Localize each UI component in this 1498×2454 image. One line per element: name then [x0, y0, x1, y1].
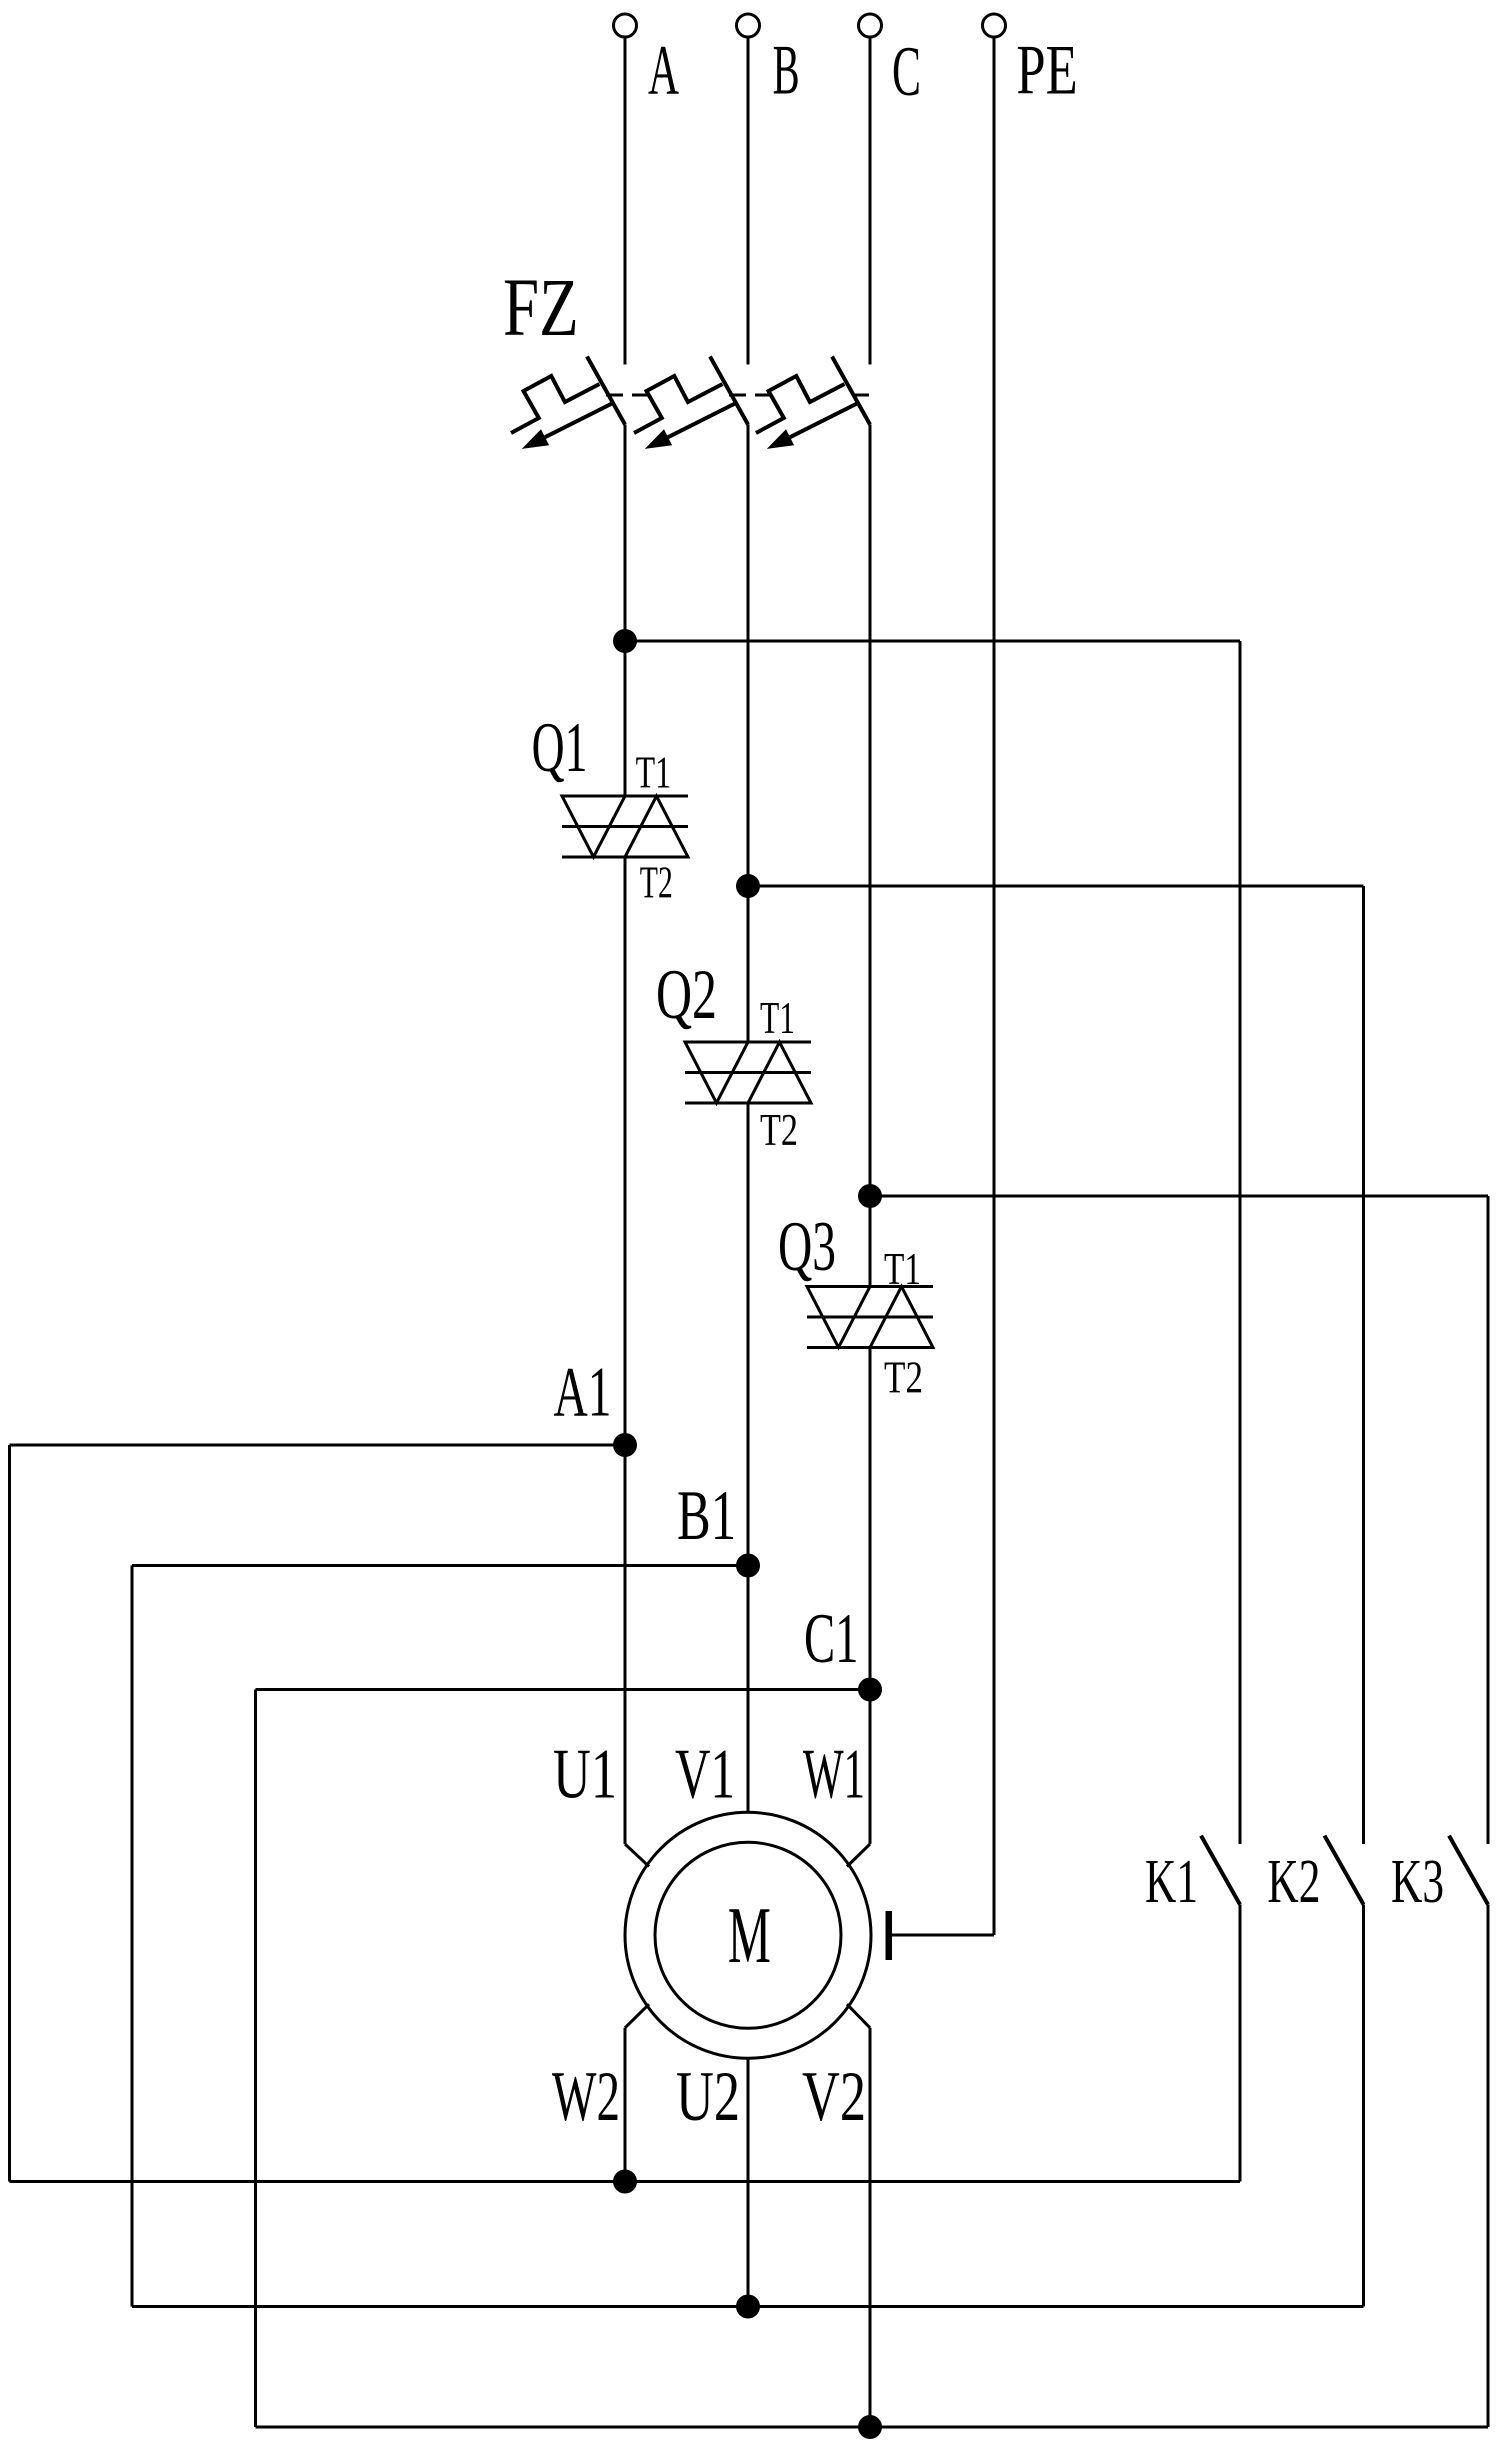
svg-text:U2: U2 [676, 2058, 740, 2136]
svg-text:T1: T1 [760, 993, 795, 1043]
node V2 junction [858, 2415, 882, 2439]
wire U2 lead-out [747, 2058, 750, 2306]
breaker pole 3 contact blade [832, 357, 870, 425]
wire A1 to left rail [10, 1444, 626, 1447]
svg-text:PE: PE [1016, 32, 1077, 110]
svg-text:B1: B1 [677, 1477, 736, 1555]
wire phase C lower [869, 1348, 872, 1845]
svg-text:M: M [728, 1892, 771, 1980]
svg-text:FZ: FZ [503, 261, 579, 353]
wire junction B to K2 [748, 885, 1364, 888]
wire K3 lower [1487, 1905, 1490, 2428]
svg-text:C1: C1 [804, 1600, 859, 1678]
breaker pole 3 trip arrow [790, 403, 858, 437]
wire phase B middle [747, 425, 750, 1043]
wire K1 lower [1239, 1905, 1242, 2182]
node W2 junction [613, 2170, 637, 2194]
terminal A [614, 14, 637, 37]
svg-text:A1: A1 [554, 1353, 612, 1431]
svg-text:C: C [892, 33, 921, 111]
svg-text:Q3: Q3 [778, 1208, 836, 1286]
bottom rail 2 [132, 2305, 1364, 2308]
svg-text:T1: T1 [884, 1244, 921, 1294]
breaker pole 3 thermal release hook [756, 376, 845, 433]
terminal B [737, 14, 760, 37]
svg-text:Q1: Q1 [532, 709, 588, 787]
wire C1 to left rail [256, 1688, 871, 1691]
svg-text:W1: W1 [803, 1735, 865, 1813]
bottom rail 1 [10, 2180, 1241, 2183]
wire junction A to K1 [625, 640, 1240, 643]
svg-text:K3: K3 [1391, 1848, 1444, 1916]
svg-text:K1: K1 [1145, 1848, 1198, 1916]
wire U1 lead-in [625, 1844, 649, 1867]
svg-text:W2: W2 [552, 2058, 620, 2136]
svg-text:V2: V2 [802, 2058, 866, 2136]
svg-text:K2: K2 [1267, 1848, 1320, 1916]
wire B1 to left rail [132, 1564, 748, 1567]
svg-text:T2: T2 [884, 1353, 923, 1403]
wire phase C upper [869, 37, 872, 365]
breaker pole 2 thermal release hook [634, 376, 723, 433]
wire phase A upper [624, 37, 627, 365]
svg-text:U1: U1 [553, 1735, 617, 1813]
terminal C [859, 14, 882, 37]
wire K2 lower [1362, 1905, 1365, 2307]
wire V2 lead-out [847, 2004, 870, 2028]
node U2 junction [736, 2295, 760, 2319]
wire W2 lead-out [625, 2004, 649, 2028]
motor M [625, 1812, 871, 2058]
svg-text:T1: T1 [636, 748, 672, 798]
wire phase A middle [624, 425, 627, 797]
breaker pole 2 contact blade [710, 357, 748, 425]
breaker pole 1 thermal release hook [511, 376, 600, 433]
svg-text:T2: T2 [760, 1105, 798, 1155]
wire PE to motor [891, 1934, 994, 1937]
motor brush bar [886, 1911, 893, 1960]
svg-text:B: B [773, 32, 800, 110]
node junction phase A [613, 629, 637, 653]
wire phase C middle [869, 425, 872, 1287]
wire W1 lead-in [847, 1844, 870, 1867]
node junction phase B [736, 874, 760, 898]
bottom rail 3 [256, 2426, 1489, 2429]
node junction phase C [858, 1184, 882, 1208]
breaker pole 1 contact blade [587, 357, 625, 425]
svg-text:V1: V1 [675, 1735, 735, 1813]
svg-text:Q2: Q2 [656, 956, 717, 1034]
FZ trip linkage dashed line [606, 394, 650, 397]
breaker pole 1 trip arrow [545, 403, 613, 437]
wire PE [993, 37, 996, 1935]
svg-text:A: A [648, 32, 679, 110]
terminal PE [983, 14, 1006, 37]
wire phase B upper [747, 37, 750, 365]
breaker pole 2 trip arrow [668, 403, 736, 437]
svg-text:T2: T2 [640, 857, 673, 907]
wire phase A lower [624, 857, 627, 1844]
wire junction C to K3 [870, 1195, 1488, 1198]
wire phase B lower [747, 1103, 750, 1812]
